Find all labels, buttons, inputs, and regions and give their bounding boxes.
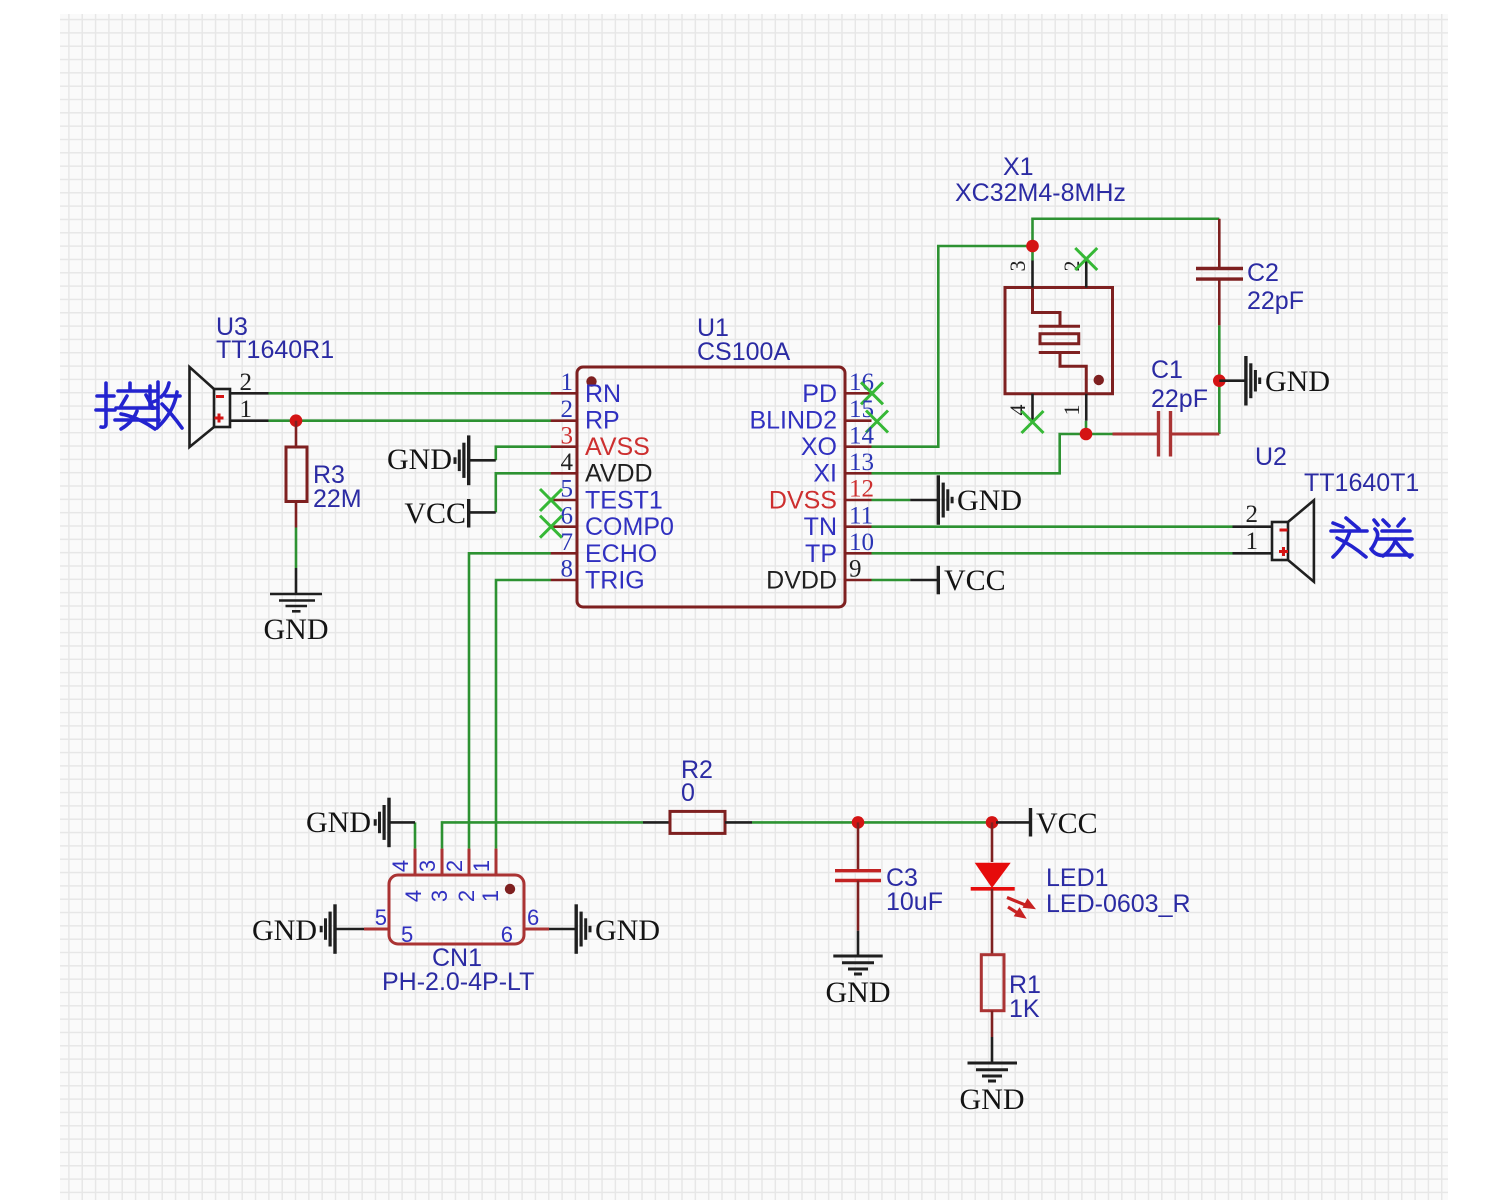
ground at CN1 pin4 — [306, 798, 415, 848]
C3 reference label — [886, 864, 918, 892]
capacitor C3 10uF — [835, 822, 881, 930]
wire CN1 pin3 to R2 — [442, 822, 643, 848]
wire U1 pin3 AVSS to GND — [496, 447, 551, 461]
CN1 pin 2 stub — [442, 849, 479, 903]
resistor R1 1K — [981, 955, 1004, 1037]
R1 reference label — [1009, 971, 1041, 999]
U1 pin 2 RP — [551, 396, 620, 434]
speaker U2 TT1640T1 — [1272, 500, 1314, 581]
svg-text:DVDD: DVDD — [766, 566, 837, 594]
X1 reference label — [1003, 153, 1034, 181]
wire U1 pin4 AVDD to VCC — [496, 473, 551, 512]
CN1 pin 1 stub — [469, 849, 503, 903]
svg-text:RP: RP — [585, 406, 620, 434]
wire C2 bottom to C1 node — [1218, 325, 1221, 434]
svg-text:TEST1: TEST1 — [585, 486, 663, 514]
connector CN1 PH-2.0-4P-LT body — [389, 875, 524, 944]
wire U1 pin8 TRIG to CN1 pin1 — [496, 580, 551, 849]
CN1 pin 6 stub — [501, 905, 549, 947]
svg-text:DVSS: DVSS — [769, 486, 837, 514]
U1 pin 1 RN — [551, 369, 621, 408]
R3 reference label — [313, 461, 345, 489]
svg-text:3: 3 — [415, 860, 440, 872]
wire R3 bottom to GND — [295, 528, 298, 569]
text 发送 (transmit) — [1331, 518, 1412, 557]
CN1 pin 5 stub — [364, 905, 413, 947]
wire U1 pin7 ECHO to CN1 pin2 — [469, 553, 551, 848]
U2 pin 1 stub — [1233, 528, 1273, 555]
svg-text:9: 9 — [849, 556, 862, 583]
svg-text:GND: GND — [252, 914, 317, 947]
svg-text:XI: XI — [813, 460, 837, 488]
U1 pin 14 XO — [801, 422, 875, 461]
wire U3 pin2 to U1 pin1 RN — [269, 392, 552, 395]
X1 value label — [955, 179, 1126, 207]
svg-text:13: 13 — [849, 449, 874, 476]
wire U3 pin1 to U1 pin2 RP — [269, 419, 552, 422]
svg-text:X1: X1 — [1003, 153, 1034, 181]
node junction crystal pin1 — [1080, 428, 1093, 441]
svg-text:5: 5 — [561, 476, 574, 503]
svg-text:2: 2 — [454, 890, 479, 902]
node junction crystal pin3 — [1026, 240, 1039, 253]
U1 pin 16 PD no-connect — [802, 369, 883, 408]
svg-text:TT1640R1: TT1640R1 — [216, 336, 334, 364]
svg-text:PH-2.0-4P-LT: PH-2.0-4P-LT — [382, 968, 534, 996]
X1 pin 1 — [1059, 394, 1086, 421]
svg-text:2: 2 — [442, 860, 467, 872]
svg-text:COMP0: COMP0 — [585, 513, 674, 541]
svg-text:CS100A: CS100A — [697, 338, 790, 366]
CN1 pin 3 stub — [415, 849, 452, 903]
svg-text:GND: GND — [306, 806, 371, 839]
U1 pin 11 TN — [804, 502, 873, 541]
U3 value label — [216, 336, 334, 364]
svg-text:7: 7 — [561, 529, 574, 556]
U3 pin 1 stub — [230, 396, 269, 423]
svg-text:22pF: 22pF — [1151, 385, 1208, 413]
svg-text:TT1640T1: TT1640T1 — [1304, 469, 1419, 497]
node junction R3 top — [290, 414, 303, 427]
LED1 value label — [1046, 890, 1191, 918]
svg-text:1: 1 — [1059, 405, 1084, 416]
svg-text:U2: U2 — [1255, 443, 1287, 471]
svg-text:4: 4 — [388, 860, 413, 872]
svg-text:C2: C2 — [1247, 259, 1279, 287]
svg-text:ECHO: ECHO — [585, 540, 657, 568]
CN1 value label — [382, 968, 534, 996]
svg-text:5: 5 — [375, 905, 387, 930]
wire U1 pin11 TN to U2 pin2 — [872, 525, 1233, 528]
R2 value label — [681, 779, 695, 807]
speaker U3 TT1640R1 — [190, 367, 231, 447]
svg-text:3: 3 — [427, 890, 452, 902]
LED1 reference label — [1046, 864, 1109, 892]
svg-text:15: 15 — [849, 396, 874, 423]
U1 pin 6 COMP0 no-connect — [540, 502, 674, 541]
U1 value label — [697, 338, 790, 366]
R1 value label — [1009, 995, 1040, 1023]
svg-text:0: 0 — [681, 779, 695, 807]
svg-text:1K: 1K — [1009, 995, 1040, 1023]
svg-text:VCC: VCC — [404, 497, 466, 530]
svg-text:1: 1 — [1246, 528, 1259, 555]
node junction C3 top — [852, 816, 865, 829]
resistor R2 0 — [643, 811, 752, 833]
ground at C2 node — [1219, 356, 1330, 406]
wire crystal top rail to C2 — [1033, 219, 1220, 261]
svg-text:22pF: 22pF — [1247, 287, 1304, 315]
U2 reference label — [1255, 443, 1287, 471]
ground at U1 pin12 DVSS — [910, 475, 1022, 525]
ground under R3 — [264, 568, 329, 646]
svg-text:4: 4 — [401, 890, 426, 902]
power VCC rail — [996, 807, 1098, 840]
wire R2 to VCC rail — [752, 821, 996, 824]
svg-text:GND: GND — [264, 613, 329, 646]
crystal X1 XC32M4-8MHz — [1005, 288, 1113, 394]
U1 reference label — [697, 314, 729, 342]
svg-text:C1: C1 — [1151, 356, 1183, 384]
svg-text:14: 14 — [849, 422, 875, 449]
CN1 pin 4 stub — [388, 849, 426, 903]
U2 value label — [1304, 469, 1419, 497]
wire U1 pin10 TP to U2 pin1 — [872, 552, 1233, 555]
ground under C3 — [826, 931, 891, 1009]
svg-text:BLIND2: BLIND2 — [749, 406, 837, 434]
capacitor C2 22pF — [1196, 219, 1243, 326]
power VCC at U1 pin9 DVDD — [910, 564, 1005, 597]
power VCC at U1 pin4 AVDD — [404, 497, 495, 530]
svg-text:11: 11 — [849, 502, 873, 529]
svg-text:2: 2 — [561, 396, 574, 423]
svg-text:GND: GND — [826, 976, 891, 1009]
C3 value label — [886, 888, 943, 916]
svg-text:10uF: 10uF — [886, 888, 943, 916]
C2 value label — [1247, 287, 1304, 315]
svg-text:6: 6 — [527, 905, 539, 930]
svg-text:10: 10 — [849, 529, 874, 556]
ground under R1 — [960, 1037, 1025, 1116]
capacitor C1 22pF — [1113, 411, 1220, 457]
U1 pin 4 AVDD — [551, 449, 653, 488]
U1 pin 7 ECHO — [551, 529, 657, 568]
text 接收 (receive) — [96, 382, 182, 429]
resistor R3 22M — [286, 421, 307, 528]
C1 reference label — [1151, 356, 1183, 384]
U3 reference label — [216, 313, 248, 341]
U3 pin 2 stub — [230, 369, 269, 396]
svg-text:1: 1 — [561, 369, 574, 396]
svg-text:GND: GND — [957, 484, 1022, 517]
svg-text:1: 1 — [240, 396, 253, 423]
svg-text:2: 2 — [1246, 501, 1259, 528]
svg-text:RN: RN — [585, 380, 621, 408]
svg-text:XO: XO — [801, 433, 837, 461]
svg-text:1: 1 — [469, 860, 494, 872]
svg-text:GND: GND — [1265, 365, 1330, 398]
C1 value label — [1151, 385, 1208, 413]
X1 pin 2 no-connect — [1059, 248, 1097, 288]
svg-text:VCC: VCC — [1036, 807, 1098, 840]
svg-text:AVDD: AVDD — [585, 460, 653, 488]
svg-text:GND: GND — [595, 914, 660, 947]
U1 pin 9 DVDD — [766, 556, 871, 595]
svg-text:TP: TP — [805, 540, 837, 568]
svg-text:1: 1 — [478, 890, 503, 902]
U1 pin 15 BLIND2 no-connect — [749, 396, 888, 434]
svg-text:LED1: LED1 — [1046, 864, 1109, 892]
svg-text:TN: TN — [804, 513, 837, 541]
svg-text:VCC: VCC — [944, 564, 1006, 597]
svg-text:3: 3 — [561, 422, 574, 449]
U1 pin 10 TP — [805, 529, 874, 568]
svg-text:12: 12 — [849, 476, 874, 503]
ground at CN1 pin6 — [549, 904, 660, 954]
IC U1 CS100A body — [577, 367, 845, 607]
svg-text:22M: 22M — [313, 485, 362, 513]
svg-text:PD: PD — [802, 380, 837, 408]
wire crystal pin1 to C1 — [1086, 421, 1113, 434]
svg-text:6: 6 — [561, 502, 574, 529]
svg-text:TRIG: TRIG — [585, 566, 645, 594]
LED LED1 — [971, 822, 1036, 954]
C2 reference label — [1247, 259, 1279, 287]
svg-text:XC32M4-8MHz: XC32M4-8MHz — [955, 179, 1126, 207]
svg-text:8: 8 — [561, 556, 574, 583]
svg-text:3: 3 — [1005, 261, 1030, 272]
CN1 reference label — [432, 944, 482, 972]
svg-text:AVSS: AVSS — [585, 433, 650, 461]
X1 pin 3 — [1005, 261, 1033, 288]
svg-text:GND: GND — [387, 443, 452, 476]
U1 pin 3 AVSS — [551, 422, 650, 461]
svg-text:5: 5 — [401, 922, 413, 947]
U1 pin 8 TRIG — [551, 556, 645, 595]
wire U1 pin13 XI to crystal pin1 node — [872, 434, 1087, 473]
R3 value label — [313, 485, 362, 513]
svg-text:6: 6 — [501, 922, 513, 947]
U1 pin 13 XI — [813, 449, 874, 488]
node junction LED1 top — [986, 816, 999, 829]
node junction C2 GND — [1213, 374, 1226, 387]
U1 pin 5 TEST1 no-connect — [540, 476, 663, 515]
wire U1 pin14 XO to crystal node — [872, 246, 1033, 447]
ground at CN1 pin5 — [252, 904, 364, 954]
svg-text:GND: GND — [960, 1083, 1025, 1116]
X1 pin 4 no-connect — [1005, 394, 1044, 433]
svg-text:4: 4 — [561, 449, 574, 476]
svg-text:LED-0603_R: LED-0603_R — [1046, 890, 1191, 918]
U1 pin 12 DVSS — [769, 476, 874, 515]
wire U1 pin9 DVDD to VCC — [872, 579, 911, 582]
wire U1 pin12 DVSS to GND — [872, 499, 911, 502]
ground at U1 pin3 AVSS — [387, 435, 496, 485]
wire CN1 pin4 to GND — [414, 822, 417, 848]
svg-text:2: 2 — [240, 369, 253, 396]
R2 reference label — [681, 756, 713, 784]
U2 pin 2 stub — [1233, 501, 1273, 528]
